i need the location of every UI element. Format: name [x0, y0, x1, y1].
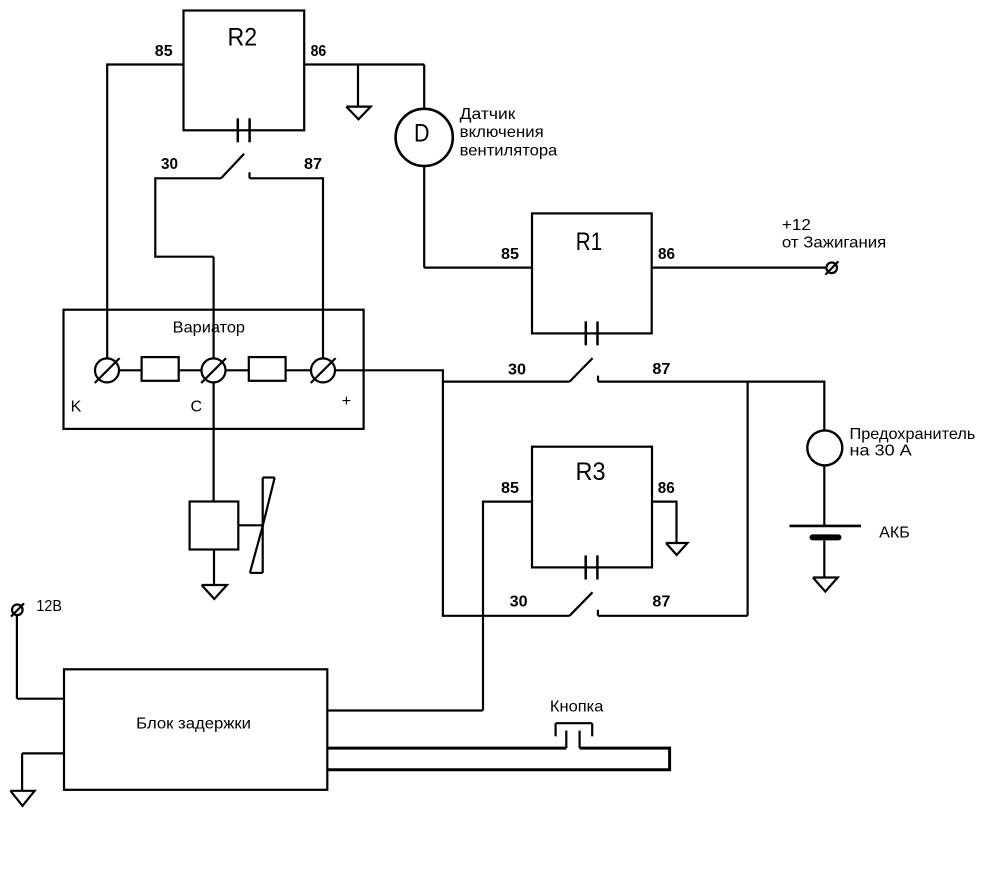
- svg-text:АКБ: АКБ: [879, 524, 910, 541]
- svg-text:R2: R2: [228, 24, 258, 52]
- svg-text:30: 30: [508, 361, 526, 378]
- svg-text:12В: 12В: [36, 598, 62, 615]
- svg-text:86: 86: [658, 480, 675, 497]
- svg-text:Предохранитель: Предохранитель: [850, 426, 976, 443]
- svg-text:86: 86: [311, 43, 327, 60]
- svg-text:включения: включения: [460, 124, 544, 141]
- svg-text:+: +: [342, 393, 351, 410]
- svg-text:R1: R1: [576, 228, 602, 256]
- svg-text:C: C: [191, 399, 203, 416]
- svg-text:87: 87: [652, 361, 670, 378]
- svg-text:+12: +12: [782, 217, 811, 234]
- svg-text:85: 85: [501, 246, 519, 263]
- svg-text:87: 87: [652, 593, 670, 610]
- svg-text:R3: R3: [576, 458, 606, 486]
- svg-text:Кнопка: Кнопка: [550, 699, 604, 716]
- svg-text:Блок задержки: Блок задержки: [136, 716, 251, 733]
- svg-text:вентилятора: вентилятора: [460, 143, 558, 160]
- svg-text:87: 87: [304, 156, 322, 173]
- svg-text:D: D: [414, 120, 430, 148]
- svg-text:30: 30: [161, 156, 178, 173]
- svg-text:от Зажигания: от Зажигания: [782, 235, 886, 252]
- svg-text:Вариатор: Вариатор: [173, 320, 245, 337]
- svg-text:85: 85: [155, 43, 173, 60]
- svg-text:на 30 А: на 30 А: [850, 443, 913, 460]
- svg-text:86: 86: [658, 246, 675, 263]
- svg-text:Датчик: Датчик: [460, 106, 517, 123]
- svg-text:30: 30: [510, 593, 528, 610]
- svg-text:85: 85: [501, 480, 519, 497]
- svg-text:K: K: [71, 399, 82, 416]
